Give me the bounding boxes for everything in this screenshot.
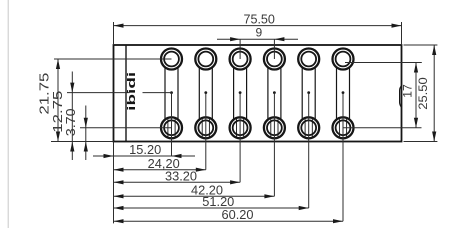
dimension 60.20 (114, 220, 344, 222)
dimension 51.20 (114, 207, 309, 209)
bore lines (201, 118, 203, 137)
page border line (7, 0, 9, 228)
dimension 12.75 (71, 72, 73, 161)
right ext lines for 25.50 (404, 44, 438, 46)
svg-text:25.50: 25.50 (416, 77, 430, 110)
slide body outline (114, 45, 402, 142)
right edge notch (400, 86, 402, 107)
dimension 3.70 (85, 106, 87, 161)
bore lines (236, 118, 238, 137)
bore lines (167, 118, 169, 137)
dimension 25.50 (433, 45, 435, 142)
bore lines (304, 118, 306, 137)
channel centre dots + extension lines (170, 91, 173, 94)
ext line centre row (gap at ibidi) (67, 92, 130, 94)
dimension 9 (239, 39, 241, 59)
svg-text:33.20: 33.20 (165, 170, 197, 184)
ext line bottom edge leftwards (51, 141, 114, 143)
right ext lines from channel 6 (345, 62, 422, 64)
dimension 21.75 (57, 59, 59, 142)
svg-text:ibidi: ibidi (126, 72, 138, 111)
svg-text:60.20: 60.20 (222, 208, 254, 222)
wire channel walls (164, 59, 166, 128)
dimension 33.20 (114, 181, 241, 183)
svg-text:15.20: 15.20 (129, 143, 161, 157)
dimension 24,20 (114, 169, 206, 171)
bottom dims vertical ref line (113, 142, 115, 224)
dimension 75.50 (113, 22, 115, 45)
dimension 15.20 (93, 155, 195, 157)
dimension 17 (415, 63, 417, 128)
svg-text:51.20: 51.20 (202, 195, 234, 209)
ext line bottom well row left (80, 127, 172, 129)
bore lines (270, 118, 272, 137)
svg-text:21.75: 21.75 (38, 73, 52, 115)
dimension 42.20 (114, 195, 275, 197)
svg-text:17: 17 (401, 84, 415, 98)
svg-text:9: 9 (255, 26, 262, 40)
svg-text:3.70: 3.70 (64, 108, 78, 136)
bore lines (338, 118, 340, 137)
ext line top well row left (54, 58, 172, 60)
svg-text:12.75: 12.75 (51, 91, 65, 133)
left seam line (125, 45, 127, 142)
wells: circles (161, 49, 182, 70)
svg-text:75.50: 75.50 (243, 12, 275, 26)
